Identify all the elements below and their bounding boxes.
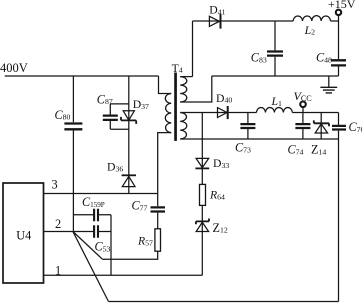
svg-text:Z12: Z12 (213, 221, 228, 235)
terminal +15V (336, 10, 341, 15)
svg-text:D41: D41 (209, 3, 225, 16)
wire D33 branch vertical (201, 113, 203, 185)
capacitor C83 (274, 21, 276, 76)
diode D36 (122, 175, 136, 186)
wire bottom secondary bottom stub / low rail (180, 138, 338, 140)
svg-text:400V: 400V (0, 61, 28, 75)
svg-text:3: 3 (52, 178, 58, 192)
svg-text:C83: C83 (251, 51, 267, 65)
ground (328, 76, 330, 87)
capacitor C87 (103, 116, 118, 120)
svg-text:Z14: Z14 (311, 143, 326, 157)
zener Z12 (196, 219, 209, 232)
svg-text:VCC: VCC (294, 89, 313, 103)
node 400V label (0, 61, 28, 75)
wire right rail y76 (212, 75, 339, 77)
svg-text:D37: D37 (133, 98, 149, 111)
capacitor C76 (338, 113, 340, 302)
wire D41 anode drop (192, 21, 194, 77)
wire snubber loop bottom (110, 128, 129, 130)
svg-text:T4: T4 (172, 62, 183, 75)
capacitor C73 (247, 113, 249, 140)
wire bottom long rail (109, 301, 339, 303)
capacitor C77 (151, 207, 166, 211)
wire pin1 (44, 274, 203, 276)
wire snubber vertical (128, 76, 130, 194)
resistor R64 (200, 184, 206, 205)
wire C77 to R57 (157, 213, 159, 229)
wire top secondary bottom stub (180, 76, 212, 102)
wire R57 bottom return (102, 251, 157, 259)
diode D40 (218, 106, 228, 119)
pin 3 label (52, 178, 58, 192)
svg-text:R64: R64 (209, 189, 225, 202)
diode D33 (195, 158, 209, 168)
transformer T4 secondary top winding (180, 77, 187, 102)
wire pin2 (44, 231, 95, 233)
svg-text:C159P: C159P (82, 195, 105, 209)
diode D37 (zener) (121, 111, 136, 124)
svg-text:L2: L2 (304, 24, 316, 37)
transformer T4 secondary bottom winding (180, 113, 187, 140)
svg-text:C74: C74 (288, 143, 304, 157)
inductor L2 (293, 16, 330, 21)
svg-text:C80: C80 (55, 108, 71, 122)
capacitor C80 (64, 124, 82, 130)
wire snubber loop top (110, 103, 129, 105)
wire primary top drop (159, 76, 172, 94)
svg-text:D36: D36 (107, 161, 123, 174)
zener Z14 (320, 113, 322, 140)
capacitor C48 (338, 21, 340, 76)
terminal Vcc (300, 102, 306, 108)
svg-text:U4: U4 (16, 228, 31, 242)
svg-text:D40: D40 (216, 92, 232, 105)
svg-text:C48: C48 (316, 51, 332, 65)
diode D41 (209, 14, 220, 29)
capacitor C159P (73, 214, 111, 216)
svg-text:C87: C87 (97, 92, 113, 106)
svg-text:2: 2 (55, 217, 61, 231)
wire pin3 / drain rail (44, 193, 158, 195)
resistor R57 (155, 229, 161, 251)
wire 400V rail (5, 75, 159, 77)
wire diagonal pin2 to bottom rail (73, 232, 109, 302)
wire caps right vertical (110, 215, 112, 275)
svg-text:C73: C73 (235, 141, 251, 155)
IC U4 (3, 183, 44, 283)
wire C87 branch (109, 104, 111, 129)
wire R64 to Z12 (201, 205, 203, 231)
wire top secondary top stub (180, 76, 192, 78)
capacitor C53 (98, 231, 111, 233)
transformer T4 core (174, 73, 177, 141)
svg-text:C77: C77 (132, 199, 148, 213)
svg-text:L1: L1 (271, 95, 283, 108)
capacitor C74 (302, 113, 304, 140)
wire top rail to +15V (193, 20, 339, 22)
pin 1 label (55, 264, 61, 278)
svg-text:C76: C76 (349, 120, 362, 134)
svg-text:+15V: +15V (328, 0, 356, 11)
pin 2 label (55, 217, 61, 231)
wire bottom secondary top stub / Vcc rail (180, 112, 338, 114)
wire primary bottom stub (158, 133, 172, 207)
wire C80 branch (72, 76, 74, 232)
wire diagonal pin2 to R57 return (73, 232, 103, 260)
wire Z12 to pin1 rail (201, 232, 203, 276)
inductor L1 (257, 107, 293, 112)
svg-text:R57: R57 (137, 235, 153, 248)
transformer T4 primary winding (165, 94, 171, 133)
svg-text:D33: D33 (213, 157, 229, 170)
svg-text:C53: C53 (95, 240, 111, 254)
